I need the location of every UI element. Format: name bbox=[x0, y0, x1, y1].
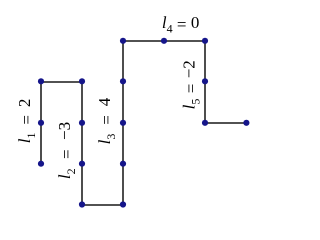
node (123,123) bbox=[120, 120, 126, 126]
svg-text:l3=4: l3=4 bbox=[95, 97, 118, 144]
node (123,41) bbox=[120, 38, 126, 44]
node (205,82) bbox=[202, 78, 208, 84]
wire: horizontal segment top of column 1 to column 2 bbox=[41, 81, 82, 83]
node (205,123) bbox=[202, 120, 208, 126]
wire: vertical segment l2 (column 2) bbox=[81, 82, 83, 205]
wire: horizontal segment bottom of column 2 to column 3 bbox=[82, 204, 123, 206]
wire: horizontal segment l4 (top, column 3 to column 5) bbox=[123, 40, 205, 42]
node (246,123) final bbox=[243, 120, 249, 126]
svg-text:l5=−2: l5=−2 bbox=[180, 60, 203, 109]
node (123,164) bbox=[120, 161, 126, 167]
node (41,82) bbox=[38, 78, 44, 84]
node (41,164) start bbox=[38, 161, 44, 167]
node (123,82) bbox=[120, 78, 126, 84]
node (41,123) bbox=[38, 120, 44, 126]
svg-text:l4=0: l4=0 bbox=[162, 13, 199, 36]
node (205,41) bbox=[202, 38, 208, 44]
node (82,82) bbox=[79, 78, 85, 84]
node (123,205) bbox=[120, 201, 126, 207]
svg-text:l2=−3: l2=−3 bbox=[55, 122, 78, 179]
wire: horizontal segment column 5 to final node bbox=[205, 122, 246, 124]
node (82,164) bbox=[79, 161, 85, 167]
wire: vertical segment l3 (column 3) bbox=[122, 41, 124, 205]
node (82,205) bbox=[79, 201, 85, 207]
wire: vertical segment l1 (column 1) bbox=[40, 82, 42, 164]
node (164,41) bbox=[161, 38, 167, 44]
wire: vertical segment l5 (column 5) bbox=[204, 41, 206, 123]
svg-text:l1=2: l1=2 bbox=[15, 99, 38, 144]
node (82,123) bbox=[79, 120, 85, 126]
